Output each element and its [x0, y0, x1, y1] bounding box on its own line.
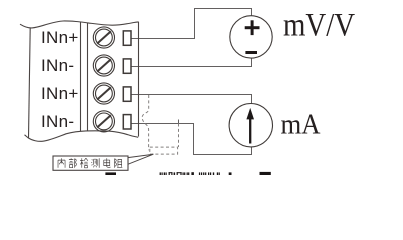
svg-text:mV/V: mV/V [283, 8, 355, 44]
svg-text:INn+: INn+ [41, 84, 79, 103]
svg-text:INn-: INn- [41, 112, 74, 131]
svg-text:INn+: INn+ [41, 28, 79, 47]
svg-text:mA: mA [281, 110, 322, 141]
svg-text:INn-: INn- [41, 56, 74, 75]
